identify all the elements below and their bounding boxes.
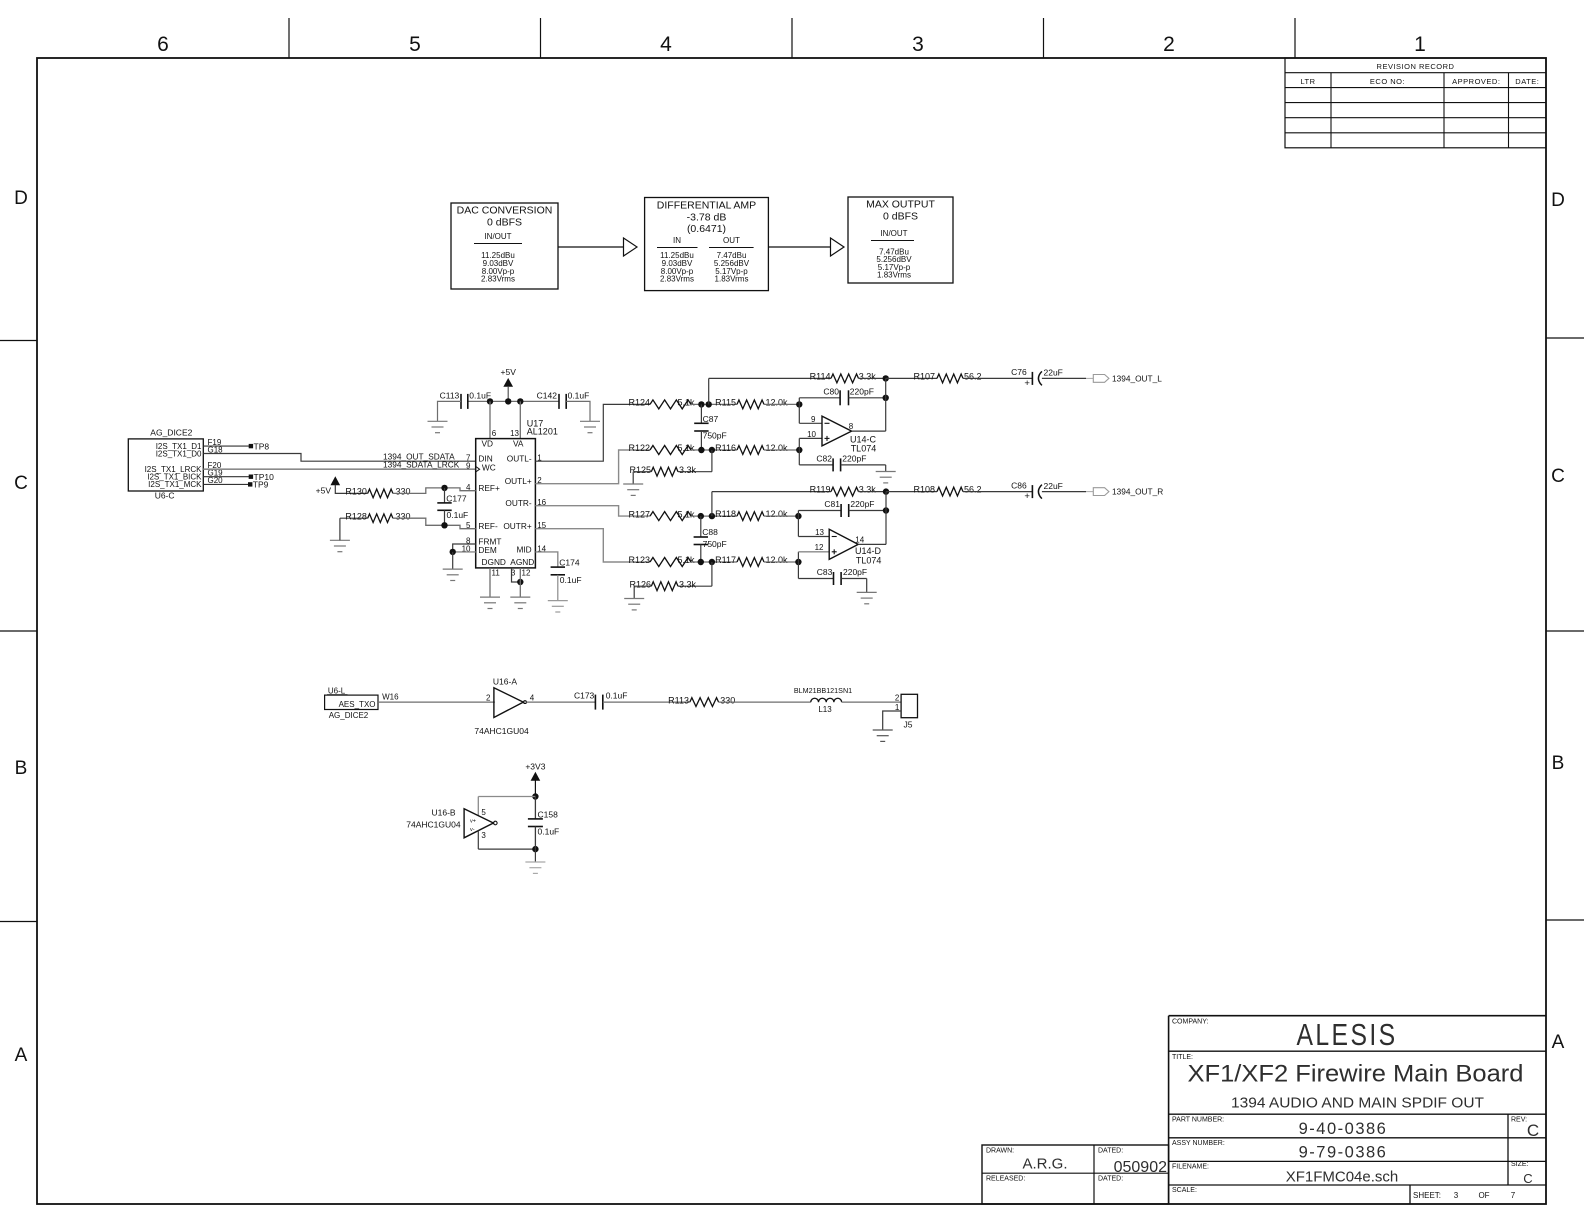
pin 10 (DEM) [462, 544, 471, 553]
wire R114 riser [709, 378, 831, 404]
svg-text:9: 9 [466, 462, 471, 471]
capacitor C174 [551, 558, 582, 586]
svg-text:5: 5 [481, 808, 486, 817]
wire C81 feedback [798, 511, 841, 517]
svg-text:C76: C76 [1011, 367, 1027, 377]
wire opamp C inverting input [799, 404, 822, 423]
wire C80 to output [849, 397, 886, 399]
resistor R126 [629, 579, 696, 590]
svg-text:0.1uF: 0.1uF [560, 575, 582, 585]
svg-text:U6-L: U6-L [328, 687, 346, 696]
wire C174 to ground [557, 575, 559, 601]
wire OUTR- to R127 [535, 506, 650, 516]
svg-text:R122: R122 [628, 443, 650, 453]
pin label G19 [208, 469, 224, 478]
wire 1394_SDATA_LRCK net [203, 468, 475, 470]
wire R107 to C76 [963, 377, 1032, 379]
svg-text:8: 8 [849, 422, 854, 431]
svg-text:COMPANY:: COMPANY: [1172, 1019, 1208, 1026]
pin 5 [466, 521, 471, 530]
title text [1172, 1054, 1524, 1112]
buffer U16-B [464, 809, 497, 838]
op-amp U14-D [829, 529, 858, 559]
wire AGND pin 3 [512, 568, 521, 582]
flow arrow 2 [768, 238, 844, 256]
svg-text:330: 330 [396, 511, 411, 521]
svg-text:C86: C86 [1011, 480, 1027, 490]
wire FRMT pin 8 [453, 544, 476, 552]
wire DEM pin 10 [453, 551, 476, 553]
svg-text:IN/OUT: IN/OUT [484, 232, 511, 241]
capacitor C173 [574, 690, 627, 709]
wire R130 to REF+ [393, 488, 476, 494]
svg-text:RELEASED:: RELEASED: [986, 1176, 1025, 1183]
junction C87 top [698, 401, 704, 407]
svg-text:22uF: 22uF [1044, 368, 1063, 378]
svg-text:DEM: DEM [478, 545, 497, 555]
svg-text:9-79-0386: 9-79-0386 [1299, 1144, 1388, 1162]
pin 13 label [815, 528, 824, 537]
ground DGND [480, 597, 500, 608]
svg-text:C174: C174 [559, 558, 580, 568]
capacitor C113 [440, 391, 491, 409]
wire DGND pin 11 [489, 568, 491, 597]
wire R124 out [691, 403, 737, 405]
wire R128 to REF- [393, 518, 476, 529]
pin 15 [537, 521, 546, 530]
svg-text:SCALE:: SCALE: [1172, 1187, 1197, 1194]
svg-text:9: 9 [811, 415, 816, 424]
wire L13 to J5 [842, 701, 902, 703]
junction opamp D plus node [795, 559, 801, 565]
svg-text:AES_TXO: AES_TXO [339, 700, 376, 709]
resistor R122 [628, 443, 695, 454]
title block grid [1169, 1016, 1546, 1204]
wire C76 to connector [1042, 377, 1093, 379]
svg-text:R117: R117 [715, 555, 736, 565]
wire I2S_TX1_D1 to TP8 [203, 445, 249, 447]
resistor R108 [886, 485, 982, 496]
svg-text:AGND: AGND [510, 557, 534, 567]
wire OUTL- to R124 [535, 404, 650, 461]
svg-text:1.83Vrms: 1.83Vrms [877, 271, 911, 280]
wire R122 out [691, 449, 737, 451]
resistor R123 [628, 555, 695, 566]
wire DEM to ground [452, 552, 454, 569]
wire R116 to node [764, 449, 799, 451]
U14-C designator [850, 434, 877, 453]
svg-text:APPROVED:: APPROVED: [1452, 77, 1500, 86]
ground AGND [510, 597, 530, 608]
svg-text:1394_SDATA_LRCK: 1394_SDATA_LRCK [383, 459, 460, 469]
connector U6-L AES_TXO [325, 687, 378, 720]
pin label F20 [208, 461, 222, 470]
net label 1394_OUT_L [1112, 373, 1162, 383]
svg-text:A.R.G.: A.R.G. [1022, 1156, 1067, 1173]
wire MID pin 14 [535, 552, 557, 567]
wire VD pin 6 [489, 401, 491, 438]
svg-text:13: 13 [815, 528, 824, 537]
ground C174 [548, 601, 568, 612]
wire C82 row [799, 450, 833, 465]
svg-text:9-40-0386: 9-40-0386 [1299, 1120, 1388, 1138]
svg-text:12.0k: 12.0k [766, 397, 789, 407]
ground C142 [580, 421, 600, 432]
wire OUTL+ to R122 [535, 450, 650, 484]
svg-text:5.1k: 5.1k [678, 509, 696, 519]
assy number [1172, 1140, 1387, 1162]
size box [1511, 1161, 1533, 1186]
pin 6 [492, 429, 497, 438]
svg-text:DGND: DGND [482, 557, 506, 567]
junction +5V bus [505, 398, 511, 404]
svg-text:R130: R130 [345, 487, 367, 497]
svg-text:R123: R123 [628, 555, 650, 565]
svg-text:56.2: 56.2 [964, 485, 982, 495]
svg-text:TP8: TP8 [254, 441, 270, 451]
svg-text:OUTR-: OUTR- [505, 498, 532, 508]
capacitor C142 [537, 391, 590, 409]
svg-text:12: 12 [815, 543, 824, 552]
wire R114 to output node [859, 377, 886, 379]
resistor R116 [715, 443, 788, 454]
wire C86 to connector [1042, 491, 1093, 493]
svg-text:AG_DICE2: AG_DICE2 [150, 428, 192, 438]
svg-text:0.1uF: 0.1uF [447, 510, 469, 520]
svg-text:AG_DICE2: AG_DICE2 [329, 711, 369, 720]
svg-text:10: 10 [807, 430, 816, 439]
svg-text:REVISION RECORD: REVISION RECORD [1377, 62, 1455, 71]
svg-text:B: B [1552, 753, 1565, 774]
svg-text:0.1uF: 0.1uF [538, 826, 560, 836]
svg-text:2: 2 [486, 693, 491, 702]
junction DEM [450, 549, 456, 555]
capacitor C88 [694, 516, 727, 562]
resistor R118 [715, 509, 788, 520]
svg-text:TL074: TL074 [851, 444, 877, 454]
wire R126 to ground [634, 586, 651, 598]
junction opamp C plus node [796, 447, 802, 453]
capacitor C158 [528, 797, 559, 850]
svg-text:SIZE:: SIZE: [1511, 1161, 1529, 1168]
ground C82 [876, 472, 896, 483]
power +5V (bus) [501, 367, 517, 402]
capacitor C86 [1011, 480, 1063, 502]
svg-text:0.1uF: 0.1uF [606, 690, 628, 700]
svg-text:OF: OF [1478, 1191, 1489, 1200]
capacitor C177 [437, 488, 468, 525]
svg-text:MAX OUTPUT: MAX OUTPUT [866, 199, 935, 211]
svg-text:C: C [1523, 1171, 1532, 1186]
pin 11 [492, 568, 501, 577]
pin 4 label U16-A [530, 693, 535, 702]
svg-text:C83: C83 [817, 567, 833, 577]
svg-text:R115: R115 [715, 397, 736, 407]
svg-text:REF+: REF+ [478, 483, 500, 493]
svg-text:L13: L13 [818, 705, 832, 714]
svg-text:PART NUMBER:: PART NUMBER: [1172, 1117, 1224, 1124]
svg-text:+3V3: +3V3 [525, 761, 545, 771]
revision record table [1285, 58, 1546, 148]
wire R118 to node [764, 515, 798, 517]
svg-text:C142: C142 [537, 391, 558, 401]
svg-text:7: 7 [1511, 1191, 1516, 1200]
svg-text:5.1k: 5.1k [678, 555, 696, 565]
column zone labels [157, 33, 1426, 56]
svg-text:FILENAME:: FILENAME: [1172, 1164, 1209, 1171]
svg-text:+5V: +5V [316, 486, 332, 496]
ground R128 [330, 540, 350, 551]
svg-text:DATE:: DATE: [1515, 77, 1539, 86]
wire C83 row [798, 562, 833, 579]
svg-text:0 dBFS: 0 dBFS [883, 211, 918, 223]
svg-text:W16: W16 [382, 693, 399, 702]
junction AGND [517, 579, 523, 585]
pin 10 label [807, 430, 816, 439]
svg-text:C87: C87 [703, 414, 719, 424]
svg-text:3.3k: 3.3k [679, 579, 697, 589]
flow arrow 1 [558, 238, 637, 256]
pin 13 [510, 429, 519, 438]
capacitor C87 [694, 404, 727, 450]
svg-text:2.83Vrms: 2.83Vrms [660, 275, 694, 284]
svg-text:12.0k: 12.0k [766, 443, 789, 453]
wire +5V bus [468, 400, 559, 402]
pin 2 label J5 [895, 693, 900, 702]
resistor R130 [345, 487, 410, 498]
wire R126 drop [678, 562, 712, 586]
test point TP10 [249, 472, 274, 482]
svg-text:11: 11 [492, 568, 501, 577]
svg-text:3.3k: 3.3k [679, 465, 697, 475]
connector J5 [901, 694, 917, 729]
svg-text:C158: C158 [538, 810, 559, 820]
svg-text:A: A [1552, 1032, 1565, 1053]
wire U16-A to C173 [526, 701, 595, 703]
wire V- loop [478, 831, 535, 850]
svg-text:C81: C81 [824, 499, 840, 509]
svg-text:v-: v- [470, 827, 475, 833]
svg-text:I2S_TX1_D0: I2S_TX1_D0 [156, 449, 202, 458]
pin 4 [466, 483, 471, 492]
svg-text:-3.78 dB: -3.78 dB [687, 212, 727, 224]
ground C83 [857, 592, 877, 603]
svg-text:R114: R114 [810, 371, 831, 381]
pin label F19 [208, 438, 222, 447]
pin 2 label U16-A [486, 693, 491, 702]
svg-text:+: + [1024, 378, 1030, 389]
wire R117 to node [764, 561, 798, 563]
ground U16-B [525, 862, 545, 873]
wire R108 to C86 [963, 491, 1032, 493]
wire C82 to ground [841, 465, 886, 472]
junction C88 bottom [698, 559, 704, 565]
resistor R113 [668, 695, 735, 706]
svg-text:R118: R118 [715, 509, 736, 519]
junction C87 bottom [698, 447, 704, 453]
wire J5 pin1 to ground [883, 711, 901, 730]
wire opamp D non-inverting input [798, 552, 829, 562]
svg-text:R127: R127 [628, 509, 650, 519]
svg-text:I2S_TX1_MCK: I2S_TX1_MCK [148, 480, 202, 489]
svg-text:74AHC1GU04: 74AHC1GU04 [474, 726, 529, 736]
svg-text:DRAWN:: DRAWN: [986, 1148, 1014, 1155]
wire C113 to ground [438, 401, 462, 421]
buffer U16-A [494, 688, 526, 718]
wire AES_TXO to U16-A [378, 701, 495, 703]
pin 16 [537, 498, 546, 507]
pin 14 [537, 544, 546, 553]
ground R125 [623, 484, 643, 495]
net label 1394_OUT_R [1112, 487, 1163, 497]
rev box [1511, 1117, 1539, 1141]
svg-text:R107: R107 [913, 371, 935, 381]
svg-text:R108: R108 [913, 485, 935, 495]
svg-text:3: 3 [1454, 1191, 1459, 1200]
svg-text:12: 12 [522, 568, 531, 577]
svg-text:DAC CONVERSION: DAC CONVERSION [457, 205, 553, 217]
svg-text:IN/OUT: IN/OUT [880, 229, 907, 238]
svg-text:XF1FMC04e.sch: XF1FMC04e.sch [1286, 1169, 1399, 1186]
wire C83 to ground [841, 579, 867, 593]
svg-text:OUTL-: OUTL- [507, 453, 532, 463]
resistor R128 [345, 511, 410, 522]
pin 7 [466, 454, 471, 463]
test point TP8 [249, 441, 270, 451]
svg-text:R116: R116 [715, 443, 736, 453]
wire OUTR+ to R123 [535, 529, 650, 562]
svg-text:C88: C88 [702, 527, 718, 537]
wire I2S_TX1_MCK to TP9 [203, 483, 248, 485]
svg-text:3: 3 [912, 33, 924, 56]
scale sheet row [1172, 1187, 1516, 1200]
svg-text:050902: 050902 [1114, 1159, 1167, 1176]
svg-text:(0.6471): (0.6471) [687, 223, 726, 235]
svg-text:ASSY NUMBER:: ASSY NUMBER: [1172, 1140, 1225, 1147]
wire V+ loop [478, 797, 535, 816]
svg-text:U6-C: U6-C [155, 491, 175, 501]
svg-text:C173: C173 [574, 690, 595, 700]
svg-text:v+: v+ [470, 818, 476, 824]
svg-text:+5V: +5V [501, 367, 517, 377]
info box DAC CONVERSION [451, 203, 558, 289]
junction VD bus [487, 398, 493, 404]
svg-text:6: 6 [492, 429, 497, 438]
svg-text:2: 2 [895, 693, 900, 702]
svg-text:MID: MID [516, 544, 531, 554]
svg-text:R124: R124 [628, 398, 650, 408]
svg-text:750pF: 750pF [703, 539, 727, 549]
connector flag 1394_OUT_R [1093, 488, 1109, 496]
junction REF+ / C177 [441, 485, 447, 491]
svg-text:WC: WC [482, 462, 496, 472]
pin 3 label [481, 831, 486, 840]
part number [1172, 1117, 1387, 1139]
svg-text:TP9: TP9 [253, 480, 269, 490]
wire opamp C non-inverting input [799, 438, 822, 450]
wire I2S_TX1_BICK to TP10 [203, 476, 249, 478]
zone tick marks [0, 18, 1584, 922]
svg-text:LTR: LTR [1300, 77, 1315, 86]
svg-text:5.1k: 5.1k [678, 443, 696, 453]
net label 1394_SDATA_LRCK [383, 459, 460, 469]
svg-text:13: 13 [510, 429, 519, 438]
wire C80 feedback [799, 398, 840, 405]
net label 1394_OUT_SDATA [383, 451, 455, 461]
svg-text:2.83Vrms: 2.83Vrms [481, 275, 515, 284]
junction R126 top [709, 559, 715, 565]
svg-text:A: A [15, 1045, 28, 1066]
svg-text:AL1201: AL1201 [527, 426, 558, 436]
junction R114 top [706, 401, 712, 407]
resistor R107 [886, 371, 982, 382]
power +5V (REF) [316, 477, 340, 495]
junction C88 top [698, 513, 704, 519]
svg-text:U16-A: U16-A [493, 676, 517, 686]
svg-text:DATED:: DATED: [1098, 1176, 1123, 1183]
svg-text:D: D [1551, 190, 1565, 211]
svg-text:VA: VA [513, 438, 524, 448]
resistor R115 [715, 397, 788, 408]
inductor L13 BLM21BB121SN1 [794, 686, 852, 714]
U14-D designator [855, 546, 882, 565]
wire R128 ground lead [340, 518, 368, 540]
company name [1172, 1017, 1398, 1052]
svg-text:1: 1 [1414, 33, 1426, 56]
resistor R117 [715, 555, 788, 566]
svg-text:5: 5 [409, 33, 421, 56]
pin 9 label [811, 415, 816, 424]
ground R126 [624, 599, 644, 610]
wire R119 to output node [859, 491, 887, 493]
wire R119 riser [712, 492, 831, 516]
pin 3 [511, 568, 516, 577]
svg-text:0 dBFS: 0 dBFS [487, 217, 522, 229]
op-amp U14-C [822, 416, 852, 446]
ground DEM [443, 569, 463, 580]
filename [1172, 1164, 1398, 1186]
svg-text:220pF: 220pF [850, 499, 874, 509]
wire C81 to output [849, 510, 886, 512]
svg-text:C: C [14, 473, 28, 494]
info box MAX OUTPUT [848, 197, 953, 283]
svg-text:REV:: REV: [1511, 1117, 1527, 1124]
power +3V3 [525, 761, 545, 796]
svg-text:1394 AUDIO AND MAIN SPDIF OUT: 1394 AUDIO AND MAIN SPDIF OUT [1231, 1095, 1484, 1112]
wire C173 to R113 [603, 701, 690, 703]
junction C81 output [883, 507, 889, 513]
svg-text:XF1/XF2 Firewire Main Board: XF1/XF2 Firewire Main Board [1188, 1061, 1524, 1088]
svg-text:12.0k: 12.0k [766, 555, 789, 565]
resistor R127 [628, 509, 695, 520]
connector U6-C AG_DICE2 [128, 428, 203, 501]
wire +5V to R130 [335, 485, 367, 494]
wire U14-D output [858, 492, 886, 545]
pin 1 label J5 [895, 703, 900, 712]
svg-text:14: 14 [855, 535, 864, 544]
svg-text:3.3k: 3.3k [859, 485, 877, 495]
svg-text:3: 3 [481, 831, 486, 840]
wire opamp D inverting input [798, 516, 829, 536]
svg-text:+: + [1024, 491, 1030, 502]
svg-text:6: 6 [157, 33, 169, 56]
test point TP9 [248, 480, 269, 490]
svg-text:0.1uF: 0.1uF [568, 391, 590, 401]
pin 12 label [815, 543, 824, 552]
svg-text:DATED:: DATED: [1098, 1148, 1123, 1155]
svg-text:C177: C177 [446, 494, 467, 504]
svg-text:ALESIS: ALESIS [1297, 1017, 1398, 1052]
